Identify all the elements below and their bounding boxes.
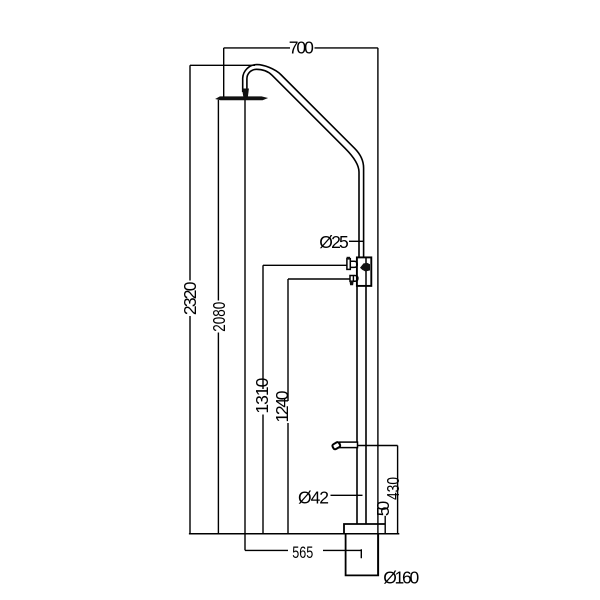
dimension 1310 xyxy=(263,265,347,534)
spout bar xyxy=(340,442,358,448)
upper knob cap xyxy=(347,259,350,270)
svg-text:50: 50 xyxy=(373,500,393,516)
lower knob skirt xyxy=(350,281,354,285)
dimension 50 xyxy=(384,516,386,534)
svg-text:2320: 2320 xyxy=(180,281,200,315)
svg-text:2080: 2080 xyxy=(209,301,229,331)
svg-text:565: 565 xyxy=(292,544,313,562)
pipe edge B: stub right, apex inside, diagonal left side, column left xyxy=(247,69,359,257)
pipe edge A: stub left, over apex outside, down-right diagonal right side, column right xyxy=(243,65,364,258)
565 extension vertical xyxy=(244,100,246,551)
dimension 2320 xyxy=(190,65,255,534)
svg-text:Ø25: Ø25 xyxy=(319,232,349,252)
700 left extension xyxy=(223,48,225,97)
430 extension xyxy=(357,445,398,447)
dimension 565 xyxy=(245,549,361,558)
base flange xyxy=(344,524,385,534)
svg-text:Ø160: Ø160 xyxy=(383,568,419,588)
upper knob barrel xyxy=(350,261,357,267)
dimension 430 xyxy=(397,446,399,534)
lower knob barrel xyxy=(350,276,358,282)
svg-text:1310: 1310 xyxy=(252,377,272,413)
valve body xyxy=(347,257,372,286)
ground line xyxy=(189,533,399,535)
head connector blob xyxy=(242,89,248,97)
700 right extension / long right line xyxy=(377,48,379,576)
valve internal seam xyxy=(365,257,367,286)
dimension 700 line xyxy=(224,48,378,576)
svg-text:Ø42: Ø42 xyxy=(298,488,329,508)
svg-text:1240: 1240 xyxy=(272,390,292,422)
svg-text:700: 700 xyxy=(289,37,314,57)
upper knob cap nub xyxy=(347,257,351,260)
svg-text:430: 430 xyxy=(383,477,403,500)
lower knob divider xyxy=(352,276,354,282)
spout tip xyxy=(332,442,341,450)
wide column below valve (left/right) xyxy=(356,286,358,524)
dimension 2080 xyxy=(217,100,219,534)
dimension 1240 xyxy=(288,279,350,534)
valve arrow blob xyxy=(360,263,370,272)
base box below ground xyxy=(346,534,379,576)
shower head (edge-on disc) xyxy=(216,97,267,100)
